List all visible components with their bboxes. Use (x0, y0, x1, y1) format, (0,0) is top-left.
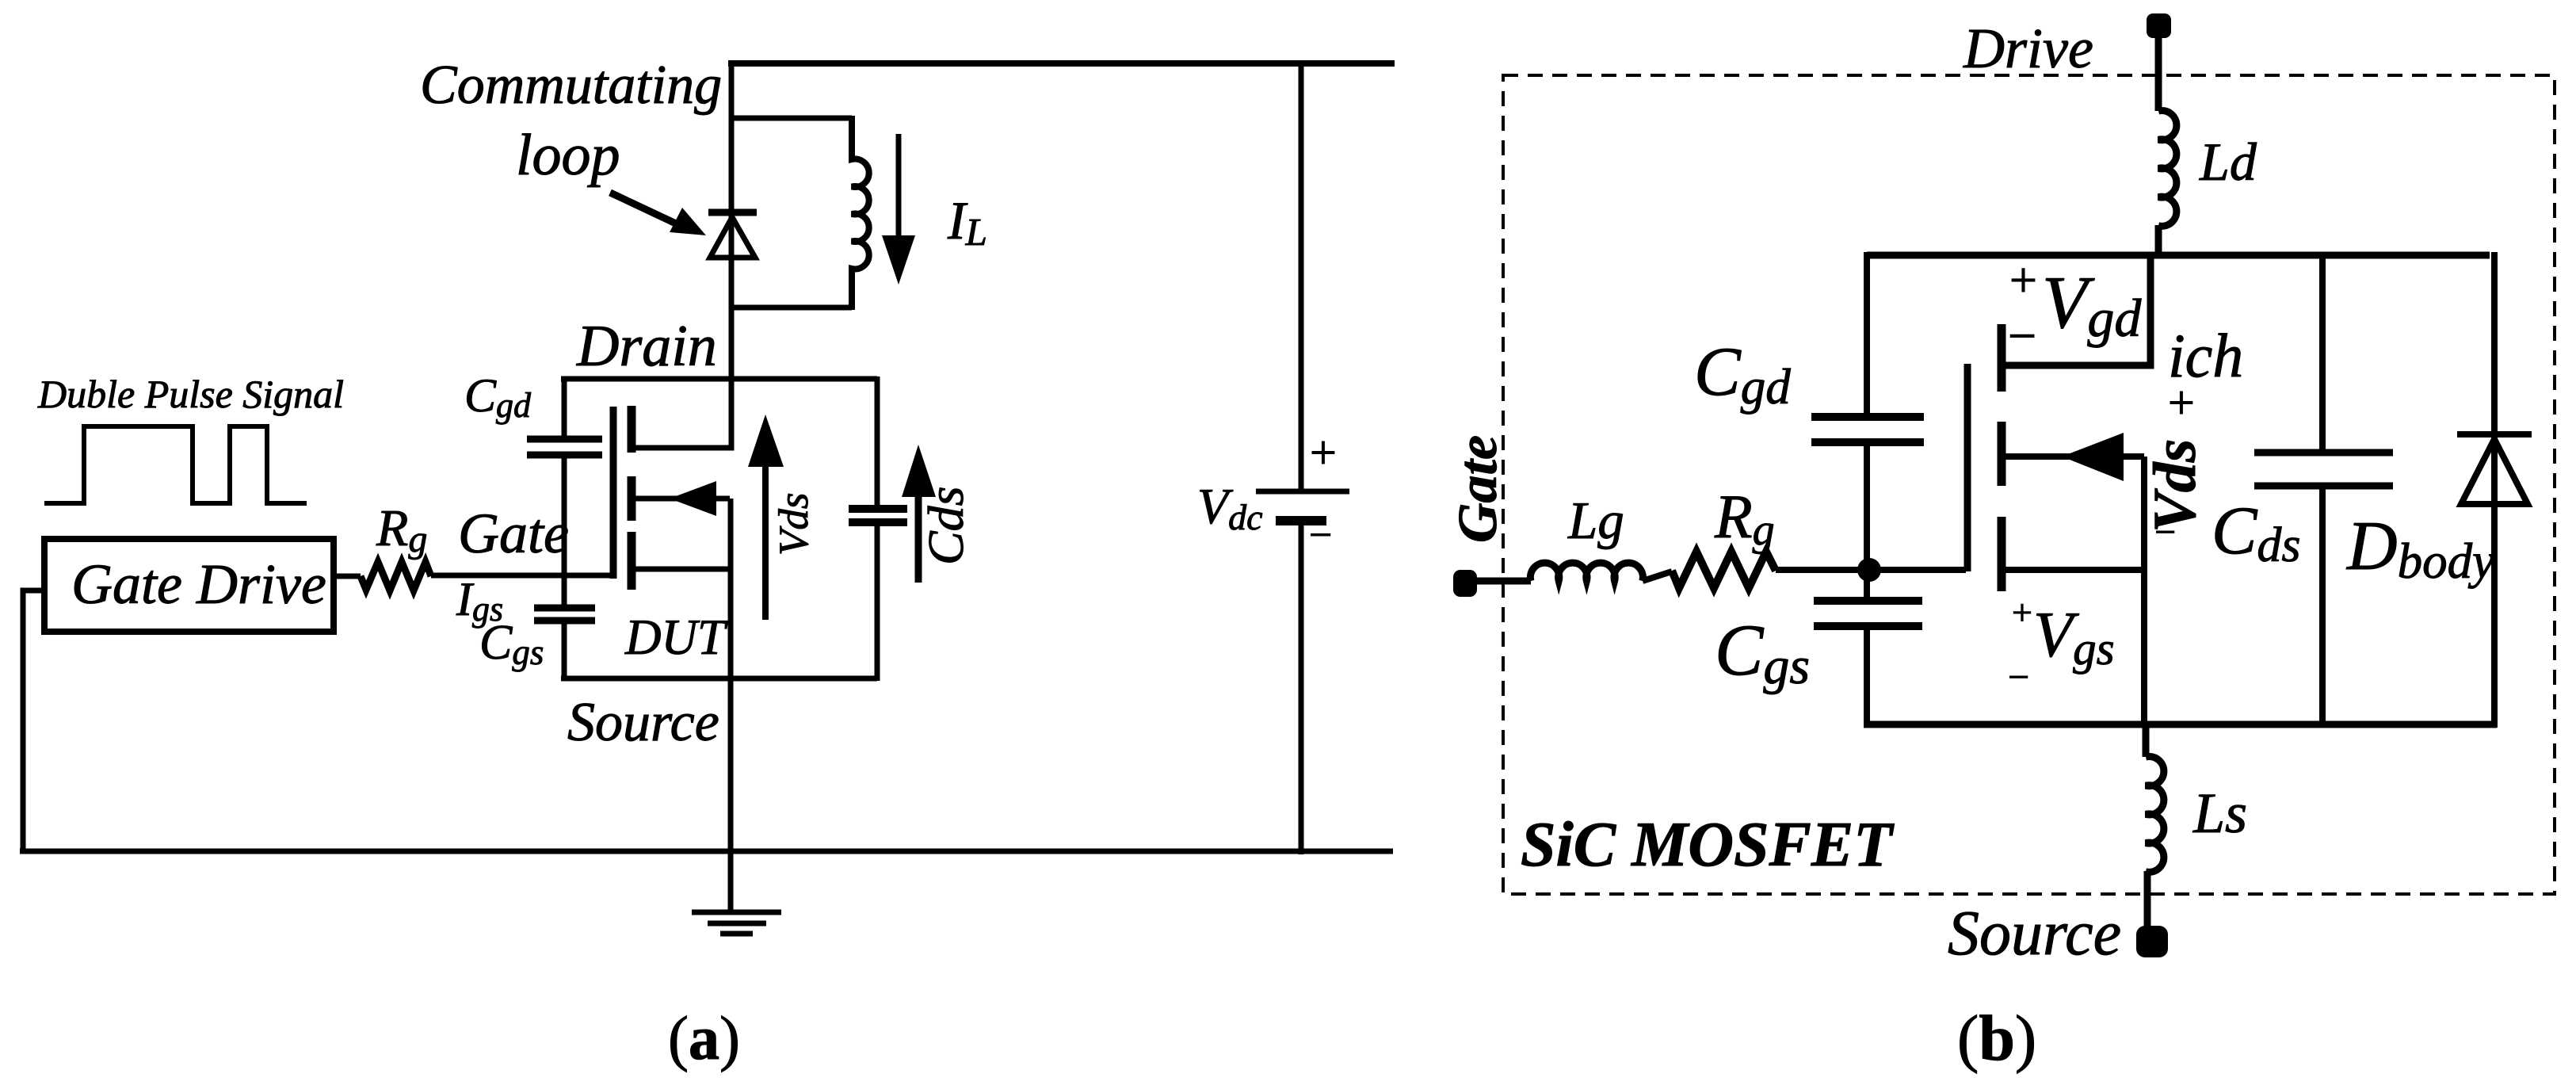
transistor DUT: channel contact segments (628, 406, 636, 590)
capacitor Cgs (b) plates (1814, 597, 1922, 605)
block: Gate Drive (44, 539, 334, 632)
node: gate junction dot (b) (1857, 558, 1881, 582)
transistor DUT: source lead (632, 567, 731, 572)
svg-text:Lg: Lg (1567, 491, 1624, 550)
dashed boundary box: SiC MOSFET package (1503, 75, 2555, 894)
diode Dbody: triangle (2461, 439, 2528, 504)
resistor Rg (a) (361, 562, 431, 590)
commutating loop: bottom edge (731, 305, 852, 311)
commutating loop: top edge (731, 116, 852, 121)
svg-text:Duble Pulse Signal: Duble Pulse Signal (37, 372, 344, 416)
svg-text:SiC MOSFET: SiC MOSFET (1521, 810, 1895, 880)
wire: Cgs branch lower to source bar (1864, 630, 1870, 728)
svg-text:Rg: Rg (376, 499, 427, 560)
wire: bottom bus of figure (a) (20, 849, 1393, 854)
wire: Rg to gate node and MOSFET gate (1776, 567, 1966, 573)
resistor Rg (b) (1672, 552, 1776, 588)
wire: drain node bar (b) (1867, 252, 2490, 259)
wire: gate terminal to Lg (1462, 578, 1531, 585)
svg-text:−: − (2008, 656, 2029, 698)
inductor Ls (2146, 757, 2164, 873)
wire: Vdc negative branch (right bus lower) (1299, 525, 1304, 854)
diode: freewheeling diode in commutating loop (708, 209, 757, 216)
wire: Ld to drain node bar (2155, 225, 2162, 258)
voltage source Vdc (battery) (1256, 491, 1349, 521)
svg-text:loop: loop (516, 123, 620, 188)
capacitor Cgs (a) plates (534, 605, 595, 612)
svg-text:Gate Drive: Gate Drive (71, 552, 326, 616)
measurement arrow Cds (a) (915, 494, 922, 583)
svg-text:Vds: Vds (771, 493, 817, 556)
wire: gate drive output lead (334, 574, 361, 579)
svg-text:Cgs: Cgs (479, 616, 544, 672)
wire: Vdc positive branch (right bus upper) (1299, 60, 1304, 491)
capacitor Cgd (b) plates (1811, 413, 1924, 421)
wire: Cds branch upper (2319, 252, 2326, 449)
DUT package box: right edge (split by Cds) (875, 376, 880, 508)
DUT package box: top edge (561, 376, 877, 382)
diode Dbody: cathode bar (2457, 431, 2532, 438)
current arrow IL (896, 134, 902, 238)
capacitor Cds (a) plates (849, 505, 907, 513)
svg-text:(b): (b) (1957, 1002, 2036, 1074)
wire: source vertical of DUT down to ground (728, 499, 734, 912)
svg-text:DUT: DUT (624, 609, 728, 665)
svg-text:+: + (2012, 592, 2032, 632)
inductor Lg (1530, 563, 1643, 581)
measurement arrow Vds (a) (762, 464, 769, 620)
transistor (b): drain lead (2002, 252, 2150, 365)
node: Gate terminal dot (1453, 570, 1477, 597)
wire: source node bar (b) (1864, 721, 2497, 728)
ground symbol (692, 912, 781, 934)
transistor (b): channel contact segments (1998, 324, 2006, 591)
wire: Cgs branch upper (1864, 570, 1870, 598)
capacitor Cds (b) plates (2254, 449, 2393, 457)
transistor DUT: drain lead (632, 60, 731, 448)
svg-text:Vdc: Vdc (1197, 478, 1263, 537)
DUT package box: bottom edge (561, 676, 877, 682)
svg-text:−: − (1309, 513, 1332, 558)
wire: source vertical down to source bar (2141, 457, 2147, 728)
svg-text:Cds: Cds (918, 486, 974, 565)
wire: gate-drive return (left) (23, 590, 46, 854)
svg-text:Source: Source (567, 692, 719, 753)
wire: source bar to Ls (2143, 724, 2150, 757)
transistor DUT (SiC MOSFET symbol, figure a): gate bar (610, 407, 617, 579)
wire: Drive terminal to Ld (2155, 22, 2162, 111)
node: Drive terminal dot (2147, 13, 2171, 38)
DUT package box: left edge segments through Cgd / gate node / Cgs (562, 376, 567, 436)
wire: Dbody branch (right edge) (2491, 252, 2498, 728)
svg-text:+: + (2168, 376, 2195, 429)
svg-text:Vgs: Vgs (2033, 598, 2115, 674)
svg-text:Ld: Ld (2199, 132, 2257, 192)
transistor DUT: body diode arrow (points to channel) (632, 496, 730, 502)
svg-text:Vgd: Vgd (2042, 262, 2142, 348)
svg-text:Gate: Gate (1448, 435, 1509, 543)
svg-text:Source: Source (1948, 899, 2121, 969)
svg-text:Cgs: Cgs (1715, 609, 1810, 695)
wire: Ls to Source terminal (2144, 871, 2151, 935)
svg-text:Rg: Rg (1714, 482, 1775, 555)
svg-text:+: + (1310, 426, 1337, 479)
wire: Cds branch lower (2319, 489, 2326, 728)
svg-text:−: − (2154, 511, 2176, 553)
svg-text:Cds: Cds (2212, 492, 2301, 572)
transistor (b): body diode arrow (2002, 453, 2144, 460)
svg-text:Ls: Ls (2192, 781, 2247, 845)
svg-text:+: + (2009, 254, 2037, 308)
svg-text:−: − (2008, 308, 2036, 364)
svg-text:Commutating: Commutating (420, 55, 722, 116)
inductor Ld (2158, 111, 2177, 227)
svg-text:Cgd: Cgd (1694, 334, 1791, 415)
annotation arrow from loop label to diode (610, 193, 677, 224)
svg-text:Gate: Gate (458, 502, 569, 565)
signal: double pulse waveform (44, 426, 307, 503)
svg-text:IL: IL (947, 190, 987, 254)
svg-text:Cgd: Cgd (464, 369, 532, 425)
svg-text:Dbody: Dbody (2346, 508, 2494, 589)
transistor (b): source lead (2002, 567, 2144, 573)
capacitor Cgd (a) plates (527, 436, 602, 443)
wire: gate wire from Rg to DUT gate (431, 573, 616, 579)
svg-text:(a): (a) (668, 1003, 740, 1072)
svg-text:Drive: Drive (1963, 17, 2093, 80)
transistor (b): gate bar (1964, 364, 1971, 571)
wire: Lg to Rg (1643, 571, 1672, 581)
node: Source terminal dot (2136, 926, 2168, 957)
inductor: load inductor in commutating loop (right edge with coil) (852, 116, 869, 310)
wire: Cgd branch upper (1864, 252, 1870, 415)
wire: Cgd branch lower to gate node (1864, 446, 1870, 570)
svg-text:Drain: Drain (576, 314, 717, 379)
wire: top bus of figure (a) (728, 60, 1395, 67)
